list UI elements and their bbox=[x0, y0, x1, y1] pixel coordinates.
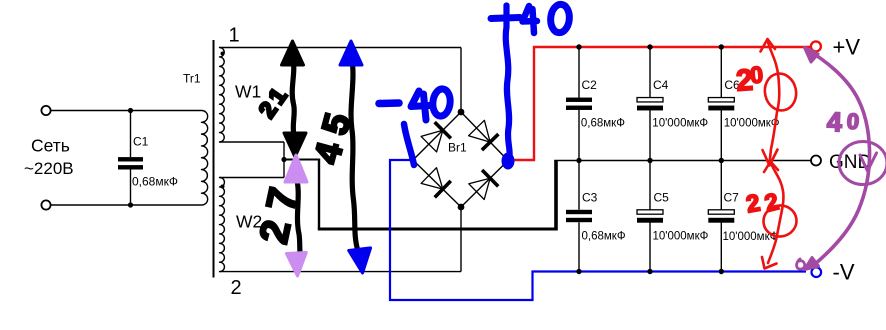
svg-text:10'000мкФ: 10'000мкФ bbox=[653, 231, 709, 243]
svg-text:C2: C2 bbox=[582, 78, 598, 92]
svg-text:0,68мкФ: 0,68мкФ bbox=[582, 231, 626, 243]
svg-text:+V: +V bbox=[833, 35, 861, 60]
svg-text:C3: C3 bbox=[582, 191, 598, 205]
svg-text:Br1: Br1 bbox=[448, 141, 467, 155]
svg-text:4: 4 bbox=[826, 107, 842, 138]
svg-text:0: 0 bbox=[846, 108, 860, 134]
svg-text:C7: C7 bbox=[724, 191, 740, 205]
svg-text:Tr1: Tr1 bbox=[183, 72, 201, 86]
svg-text:2: 2 bbox=[231, 277, 242, 299]
svg-text:C5: C5 bbox=[654, 191, 670, 205]
svg-text:~220В: ~220В bbox=[24, 159, 74, 178]
svg-text:0,68мкФ: 0,68мкФ bbox=[132, 175, 178, 189]
svg-text:Сеть: Сеть bbox=[31, 136, 70, 156]
svg-text:-V: -V bbox=[833, 260, 855, 285]
svg-text:C1: C1 bbox=[133, 135, 149, 149]
svg-text:1: 1 bbox=[229, 25, 240, 47]
svg-text:0,68мкФ: 0,68мкФ bbox=[581, 118, 625, 130]
svg-text:C4: C4 bbox=[653, 78, 669, 92]
svg-text:10'000мкФ: 10'000мкФ bbox=[724, 118, 780, 130]
svg-text:0: 0 bbox=[749, 61, 764, 88]
svg-text:10'000мкФ: 10'000мкФ bbox=[652, 118, 708, 130]
svg-text:W1: W1 bbox=[235, 82, 261, 102]
